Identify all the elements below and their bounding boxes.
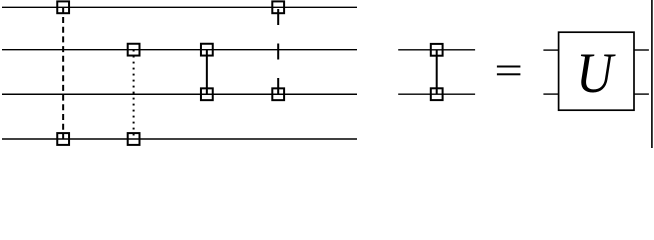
equals sign bottom bar xyxy=(497,73,521,75)
equals sign top bar xyxy=(497,66,521,68)
gate G1 square on q4 xyxy=(57,133,69,145)
wire stub right bottom out of U box xyxy=(634,93,649,95)
wire q2 xyxy=(2,49,357,51)
frame border right edge xyxy=(651,0,653,148)
wire a2 (lhs of identity) xyxy=(398,93,475,95)
gate G1 square on q1 xyxy=(57,1,69,13)
wire q1 xyxy=(2,6,357,8)
gate U box xyxy=(559,32,634,110)
wire a1 (lhs of identity) xyxy=(398,49,475,51)
wire q4 xyxy=(2,138,357,140)
gate G3 square on q2 xyxy=(201,44,213,56)
gate G4 long-dashed connector q1-q3 xyxy=(277,7,279,94)
gate G3 solid connector q2-q3 xyxy=(206,50,208,95)
wire stub left top into U box xyxy=(543,49,558,51)
gate G5 square on a1 xyxy=(431,44,443,56)
wire stub left bottom into U box xyxy=(543,93,558,95)
wire stub right top out of U box xyxy=(634,49,649,51)
gate G5 square on a2 xyxy=(431,88,443,100)
gate G4 square on q3 xyxy=(272,88,284,100)
gate G5 solid connector a1-a2 xyxy=(436,50,438,94)
gate G2 square on q4 xyxy=(128,133,140,145)
wire q3 xyxy=(2,93,357,95)
gate G3 square on q3 xyxy=(201,88,213,100)
gate G2 square on q2 xyxy=(128,44,140,56)
svg-text:U: U xyxy=(576,41,615,104)
gate G2 dotted connector q2-q4 xyxy=(133,50,135,139)
gate G1 dashed connector q1-q4 xyxy=(62,7,64,139)
gate U label xyxy=(576,41,615,104)
gate G4 square on q1 xyxy=(272,1,284,13)
